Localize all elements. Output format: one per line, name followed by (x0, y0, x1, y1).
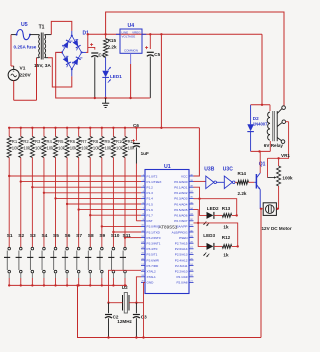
svg-text:P0.7/AD7: P0.7/AD7 (174, 219, 188, 223)
svg-text:C3: C3 (141, 315, 147, 320)
svg-text:P0.2/AD2: P0.2/AD2 (174, 191, 188, 195)
svg-text:P0.3/AD3: P0.3/AD3 (174, 197, 188, 201)
ground symbol (power) (102, 97, 109, 108)
switch S9 (97, 233, 106, 287)
wire: R3 to S3 and MCU pin (31, 158, 141, 248)
svg-text:P2.6/A14: P2.6/A14 (175, 247, 188, 251)
svg-text:VR1: VR1 (281, 153, 290, 158)
svg-text:VOLTAGE: VOLTAGE (122, 34, 136, 38)
wire: +5V riser to logic rail (160, 33, 162, 35)
capacitor C2 (105, 303, 119, 339)
svg-text:R7: R7 (81, 139, 87, 144)
wire: R8 to S8 and MCU pin (89, 158, 141, 248)
svg-text:P0.1/AD1: P0.1/AD1 (174, 186, 188, 190)
svg-text:P2.5/A13: P2.5/A13 (175, 253, 188, 257)
svg-text:P0.6/AD6: P0.6/AD6 (174, 214, 188, 218)
relay coil loop wires (251, 104, 271, 153)
svg-text:P2.4/A12: P2.4/A12 (175, 258, 188, 262)
MCU left pins (141, 174, 161, 284)
wire: MCU GND to ground rail (142, 282, 145, 338)
svg-text:LED3: LED3 (203, 233, 215, 238)
wire: U3B to U3C (217, 181, 225, 183)
svg-text:S4: S4 (41, 233, 47, 239)
svg-text:P3.4/T0: P3.4/T0 (147, 247, 158, 251)
svg-text:S9: S9 (99, 233, 105, 239)
wire: motor/emitter to ground rail (260, 209, 262, 338)
svg-text:R13: R13 (222, 206, 231, 211)
switch S3 (27, 233, 36, 287)
svg-text:S5: S5 (53, 233, 59, 239)
svg-text:VCC: VCC (181, 174, 188, 178)
relay K1 6V (264, 106, 286, 148)
svg-text:1uF: 1uF (141, 151, 149, 156)
svg-text:2.2k: 2.2k (108, 44, 117, 49)
wire: R2 to S2 and MCU pin (20, 158, 141, 248)
svg-text:P1.3: P1.3 (147, 191, 154, 195)
svg-text:P1.5: P1.5 (147, 202, 154, 206)
svg-text:P0.0/AD0: P0.0/AD0 (174, 180, 188, 184)
switch S1 (4, 233, 13, 287)
switch S10 (108, 233, 120, 287)
wire: switch common rail (9, 284, 127, 286)
svg-text:R3: R3 (35, 139, 41, 144)
svg-text:U3C: U3C (223, 167, 233, 173)
microcontroller U1 AT89S51 (145, 164, 189, 294)
resistor R10 10k (111, 127, 124, 158)
svg-text:P3.2/INT0: P3.2/INT0 (147, 236, 161, 240)
wire: +5V logic rail (9, 127, 199, 129)
wire: MCU to U3B input (194, 180, 206, 182)
LED2 row (194, 187, 238, 229)
resistor R7 10k (77, 127, 89, 158)
capacitor C5 (145, 33, 161, 98)
switch S2 (16, 233, 25, 287)
svg-text:U3B: U3B (204, 167, 214, 173)
svg-text:S11: S11 (123, 233, 132, 239)
svg-text:LED1: LED1 (110, 74, 122, 79)
svg-text:P0.5/AD5: P0.5/AD5 (174, 208, 188, 212)
svg-text:R8: R8 (93, 139, 99, 144)
wire: XTAL2 to crystal (109, 270, 142, 302)
svg-text:XTAL2: XTAL2 (147, 270, 157, 274)
svg-text:R4: R4 (47, 139, 53, 144)
wire: secondary top to bridge top (51, 21, 72, 34)
svg-text:U1: U1 (164, 164, 171, 170)
switch S5 (50, 233, 59, 287)
resistor R2 10k (19, 127, 31, 158)
MCU right pins (172, 174, 194, 284)
svg-text:S10: S10 (111, 233, 120, 239)
svg-text:D2: D2 (253, 116, 259, 121)
svg-text:ALE/PROG: ALE/PROG (172, 230, 188, 234)
svg-text:0.25A fuse: 0.25A fuse (14, 45, 37, 50)
wire: R5 to S5 and MCU pin (54, 158, 141, 248)
resistor R8 10k (88, 127, 100, 158)
svg-text:S2: S2 (18, 233, 24, 239)
svg-text:P3.1/TXD: P3.1/TXD (147, 230, 161, 234)
svg-text:V1: V1 (20, 66, 26, 72)
buffer U3C (223, 167, 235, 189)
svg-text:C6: C6 (133, 123, 139, 128)
svg-text:GND: GND (147, 281, 155, 285)
svg-text:1k: 1k (223, 225, 229, 230)
wire: crystal leads (107, 302, 143, 304)
wire: secondary bottom to bridge bottom (48, 58, 72, 87)
svg-text:S8: S8 (88, 233, 94, 239)
resistor R11 10k (123, 127, 136, 158)
svg-text:VREG: VREG (132, 31, 141, 35)
svg-text:R6: R6 (70, 139, 76, 144)
svg-text:1k: 1k (223, 252, 229, 257)
wire: R1 to S1 and MCU pin (8, 158, 141, 248)
svg-text:15V, 3A: 15V, 3A (34, 63, 51, 69)
wire: VCC drop to MCU (194, 128, 200, 176)
transistor Q1 (254, 151, 265, 208)
switch S4 (39, 233, 48, 287)
wire: raw DC top line to relay contact (106, 12, 284, 106)
wire: R9 to S9 and MCU pin (101, 158, 141, 248)
resistor R1 10k (7, 127, 19, 158)
switch S7 (73, 233, 82, 287)
svg-text:P1.4: P1.4 (147, 197, 154, 201)
transformer T1 (34, 25, 51, 70)
svg-text:P3.3/INT1: P3.3/INT1 (147, 242, 161, 246)
wire: R6 to S6 and MCU pin (66, 158, 141, 248)
wire: R4 to S4 and MCU pin (43, 158, 141, 248)
diode D2 1N4007 (flyback) (247, 105, 268, 152)
crystal U2 12MHz (117, 285, 132, 324)
switch S6 (62, 233, 71, 287)
svg-text:C5: C5 (154, 52, 160, 57)
svg-text:R5: R5 (58, 139, 64, 144)
svg-text:P1.7: P1.7 (147, 214, 154, 218)
svg-text:T1: T1 (39, 25, 45, 31)
svg-text:EA/VPP: EA/VPP (176, 225, 187, 229)
resistor R4 10k (42, 127, 54, 158)
wire: R7 to S7 and MCU pin (77, 158, 141, 248)
capacitor C6 1uF (reset) (132, 123, 149, 221)
switch S11 (120, 233, 131, 287)
svg-text:U5: U5 (21, 22, 28, 28)
svg-text:100k: 100k (282, 175, 293, 180)
wire: switch rail to ground rail (78, 285, 262, 337)
svg-text:U4: U4 (128, 23, 135, 29)
svg-text:AT89S51: AT89S51 (159, 225, 178, 230)
svg-text:S3: S3 (30, 233, 36, 239)
svg-text:2.2k: 2.2k (238, 191, 247, 196)
LED3 row (194, 210, 239, 258)
svg-text:P2.1/A9: P2.1/A9 (176, 275, 187, 279)
wire: unregulated DC rail to U4 and beyond (88, 33, 262, 35)
wire: R10 to S10 and MCU pin (112, 158, 141, 248)
svg-text:R1: R1 (12, 139, 18, 144)
svg-text:P3.7/RD: P3.7/RD (147, 264, 159, 268)
svg-text:XTAL1: XTAL1 (147, 275, 157, 279)
wire: +5V rail to relay coil drop (261, 34, 263, 105)
svg-text:12V DC Motor: 12V DC Motor (262, 226, 292, 231)
svg-text:P2.2/A10: P2.2/A10 (175, 270, 188, 274)
buffer U3B (204, 167, 216, 189)
resistor R15 2.2k (104, 34, 117, 57)
resistor R3 10k (30, 127, 42, 158)
capacitor C4 (88, 43, 105, 99)
wire: relay contact to VR1 (268, 122, 289, 178)
svg-text:+: + (13, 69, 15, 73)
resistor R5 10k (53, 127, 65, 158)
svg-text:220V: 220V (20, 73, 32, 79)
svg-text:R2: R2 (23, 139, 29, 144)
svg-text:R14: R14 (238, 171, 247, 176)
resistor R9 10k (100, 127, 112, 158)
svg-text:LED2: LED2 (207, 206, 219, 211)
potentiometer VR1 100k (268, 153, 294, 209)
svg-text:RST: RST (147, 219, 153, 223)
wire: R11 to S11 and MCU pin (124, 158, 141, 248)
svg-text:R9: R9 (104, 139, 110, 144)
svg-text:P0.4/AD4: P0.4/AD4 (174, 202, 188, 206)
wire: bridge left vertex to ground rail (56, 52, 95, 98)
LED1 (102, 58, 122, 99)
svg-text:P1.2: P1.2 (147, 186, 154, 190)
svg-text:PSEN: PSEN (179, 236, 187, 240)
switch S8 (85, 233, 94, 287)
svg-text:6V Relay: 6V Relay (264, 143, 284, 148)
svg-text:P2.7/A15: P2.7/A15 (175, 242, 188, 246)
svg-text:S1: S1 (7, 233, 13, 239)
svg-text:P1.1/T2EX: P1.1/T2EX (147, 180, 162, 184)
svg-text:U2: U2 (122, 285, 128, 290)
motor M1 12V DC (260, 203, 292, 231)
svg-text:P3.5/T1: P3.5/T1 (147, 253, 158, 257)
capacitor C3 (133, 303, 147, 339)
fuse U5 (11, 22, 39, 50)
svg-text:P3.6/WR: P3.6/WR (147, 258, 160, 262)
svg-text:S7: S7 (76, 233, 82, 239)
svg-text:COMMON: COMMON (124, 49, 138, 53)
bridge rectifier D1 (57, 31, 90, 77)
AC source V1 220V (8, 35, 36, 101)
voltage regulator U4 (116, 23, 146, 99)
svg-text:P1.6: P1.6 (147, 208, 154, 212)
svg-text:R15: R15 (108, 38, 117, 43)
svg-text:P2.0/A8: P2.0/A8 (176, 281, 187, 285)
svg-text:C2: C2 (113, 315, 119, 320)
wire: ground rail under power supply (95, 97, 150, 99)
svg-text:P1.0/T2: P1.0/T2 (147, 174, 158, 178)
resistor R6 10k (65, 127, 77, 158)
svg-text:P3.0/RXD: P3.0/RXD (147, 225, 162, 229)
svg-text:1N4007: 1N4007 (253, 122, 268, 127)
resistor R14 2.2k (235, 171, 254, 196)
wire: XTAL1 to crystal (136, 277, 141, 303)
svg-text:12MHz: 12MHz (117, 319, 132, 324)
svg-text:R10: R10 (116, 139, 124, 144)
wire: bridge right vertex riser to +V rail (86, 34, 88, 52)
svg-text:R12: R12 (222, 235, 231, 240)
svg-text:S6: S6 (65, 233, 71, 239)
svg-text:P2.3/A11: P2.3/A11 (175, 264, 188, 268)
